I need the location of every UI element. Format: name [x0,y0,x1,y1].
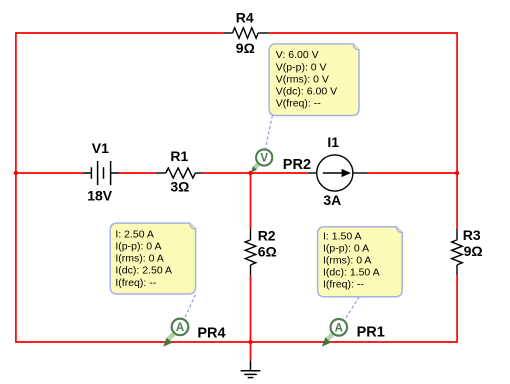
svg-text:V(dc): 6.00 V: V(dc): 6.00 V [276,86,337,98]
svg-text:I(freq): --: I(freq): -- [323,278,364,290]
svg-text:PR4: PR4 [197,326,225,342]
svg-text:V(freq): --: V(freq): -- [276,98,321,110]
probe readout box PR2 (voltage values) [269,44,359,116]
svg-text:9Ω: 9Ω [236,40,255,56]
probe readout box PR4 (current values) [110,223,195,294]
wire left vertical [15,32,17,343]
junction node center middle [248,171,252,175]
svg-text:18V: 18V [87,187,113,203]
battery V1 [83,161,118,185]
wire middle R1 to I1 [203,172,308,174]
svg-text:I(dc): 2.50 A: I(dc): 2.50 A [115,264,172,276]
svg-text:V(rms): 0 V: V(rms): 0 V [276,74,329,86]
probe PR2 (voltage) [251,149,273,172]
svg-text:I(dc): 1.50 A: I(dc): 1.50 A [323,267,380,279]
svg-text:A: A [335,322,343,334]
svg-text:V(p-p): 0 V: V(p-p): 0 V [276,61,327,73]
junction node right middle [455,171,459,175]
current source I1 [308,155,368,191]
resistor R3 [452,228,463,275]
svg-text:I(rms): 0 A: I(rms): 0 A [115,252,163,264]
svg-text:I(freq): --: I(freq): -- [115,277,156,289]
svg-text:V1: V1 [92,140,109,156]
wire right vertical lower [456,275,458,343]
ground [241,361,261,378]
svg-text:3Ω: 3Ω [170,178,189,194]
svg-text:R4: R4 [236,10,254,26]
junction node bottom center [248,340,252,344]
svg-text:I: 2.50 A: I: 2.50 A [115,228,154,240]
svg-text:I(p-p): 0 A: I(p-p): 0 A [323,243,369,255]
svg-text:R2: R2 [258,227,276,243]
wire bottom [16,341,457,343]
wire top-right segment [269,32,457,34]
svg-text:PR2: PR2 [283,157,311,173]
wire right vertical upper [456,32,458,228]
svg-text:V: 6.00 V: V: 6.00 V [276,49,319,61]
wire middle vertical lower (R2 to bottom) [250,275,252,342]
svg-text:I: 1.50 A: I: 1.50 A [323,231,362,243]
probe PR4 (current) [163,319,188,347]
svg-text:6Ω: 6Ω [258,243,277,259]
svg-text:R3: R3 [463,227,481,243]
svg-text:A: A [176,322,184,334]
leader line PR4 probe to readout [185,295,196,319]
svg-text:I(rms): 0 A: I(rms): 0 A [323,255,371,267]
probe readout box PR1 (current values) [318,227,403,297]
wire middle I1 to right [367,172,457,174]
wire middle left of V1 [16,172,84,174]
svg-text:V: V [260,153,268,165]
junction node left middle [14,171,18,175]
wire ground stub [250,342,252,361]
wire middle V1 to R1 [118,172,155,174]
svg-text:I(p-p): 0 A: I(p-p): 0 A [115,240,161,252]
wire top-left segment [16,32,224,34]
svg-text:I1: I1 [327,134,339,150]
svg-text:9Ω: 9Ω [464,243,483,259]
probe PR1 (current) [322,319,347,347]
svg-text:R1: R1 [170,148,188,164]
leader line PR2 probe to readout [265,116,272,149]
resistor R2 [245,228,256,275]
wire middle vertical upper (node to R2) [250,173,252,228]
resistor R4 [224,28,269,39]
resistor R1 [156,168,203,178]
svg-text:3A: 3A [323,192,341,208]
leader line PR1 probe to readout [345,297,360,320]
svg-text:PR1: PR1 [357,325,385,341]
